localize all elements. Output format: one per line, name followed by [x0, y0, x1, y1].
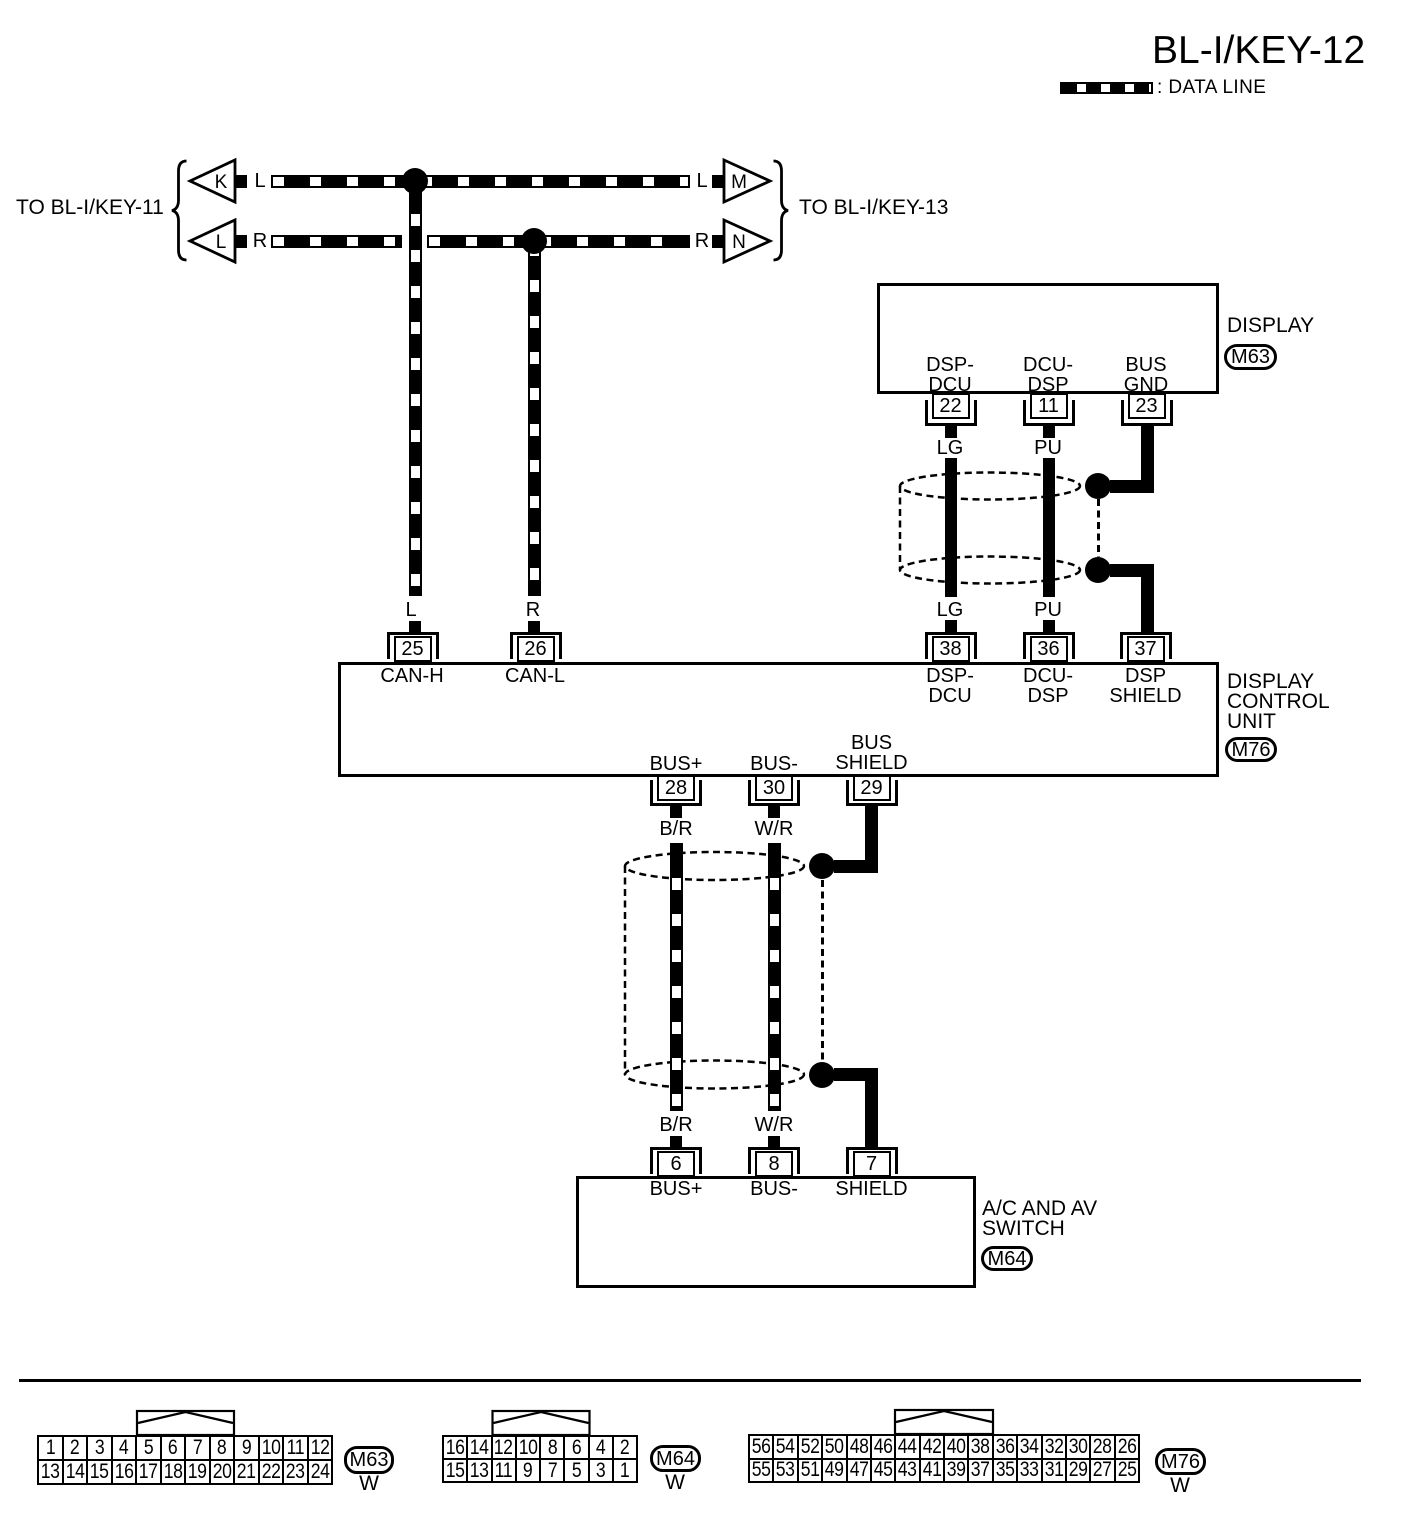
connector id M63 oval: [1224, 344, 1277, 370]
connector color W (M76): [1170, 1476, 1190, 1496]
wire stub above pin 6: [670, 1136, 682, 1149]
pin 26 (DCU CAN-L): [510, 632, 562, 659]
vertical data line CAN-H (junction to pin 25): [409, 181, 422, 596]
pin name CAN-H: [380, 666, 443, 686]
wire stub after arrow K: [235, 175, 247, 188]
connector color W (M63): [359, 1474, 379, 1494]
connector face M76 pin grid: [748, 1434, 1140, 1483]
pin name DSP-DCU (DCU): [926, 666, 974, 706]
title BL-I/KEY-12: [1152, 31, 1365, 70]
pin name DCU-DSP (DCU): [1023, 666, 1073, 706]
connector face M64 pin grid: [442, 1435, 638, 1483]
wire stub after arrow L: [235, 235, 247, 248]
connector id M64 oval: [981, 1246, 1033, 1271]
pin name BUS SHIELD (DCU): [835, 733, 907, 773]
connector id M64 oval (bottom): [650, 1445, 701, 1472]
wire color label R (above pin 26): [526, 600, 540, 620]
pin name BUS+ (switch): [650, 1179, 703, 1199]
pin 22 (display DSP-DCU): [925, 400, 977, 426]
unit box DISPLAY CONTROL UNIT: [338, 662, 1219, 777]
connector id M63 oval (bottom): [344, 1446, 394, 1474]
pin name BUS- (switch): [750, 1179, 798, 1199]
wire color label R (row 2 right): [695, 231, 709, 251]
wire color label LG (lower): [935, 600, 966, 620]
wire stub above pin 25: [409, 621, 421, 633]
shield node upper (switch wires): [809, 853, 835, 879]
vertical data line CAN-L (junction to pin 26): [528, 241, 541, 596]
data line CAN-L horizontal (right of crossing): [427, 235, 690, 248]
pin 29 (DCU BUS SHIELD): [846, 780, 898, 806]
pin name DSP SHIELD (DCU): [1109, 666, 1181, 706]
wire color label B/R (upper): [659, 819, 692, 839]
wire PU (pin 11 to pin 36): [1043, 438, 1055, 597]
pin 25 (DCU CAN-H): [387, 632, 439, 659]
wire color label PU (upper): [1032, 438, 1064, 458]
shield node lower (display): [1085, 557, 1111, 583]
wire color label LG (upper): [935, 438, 966, 458]
unit box DISPLAY: [877, 283, 1219, 394]
pin name BUS- (DCU): [750, 754, 798, 774]
unit name A/C AND AV SWITCH: [982, 1199, 1097, 1239]
wire stub above pin 8: [768, 1136, 780, 1149]
legend data-line sample: [1060, 82, 1153, 94]
pin 36 (DCU DCU-DSP): [1023, 632, 1075, 659]
pin 30 (DCU BUS-): [748, 780, 800, 806]
pin name BUS+ (DCU): [650, 754, 703, 774]
pin 7 (switch SHIELD): [846, 1147, 898, 1174]
unit box A/C AND AV SWITCH: [576, 1176, 976, 1288]
wire LG (pin 22 to pin 38): [945, 438, 957, 597]
wire color label W/R (lower): [755, 1115, 794, 1135]
pin 6 (switch BUS+): [650, 1147, 702, 1174]
pin name BUS GND (display): [1124, 355, 1168, 395]
wire stub above pin 38: [945, 620, 957, 633]
wire color label PU (lower): [1032, 600, 1064, 620]
wire color label L (above pin 25): [405, 600, 416, 620]
data line CAN-H horizontal: [271, 175, 690, 188]
shield node upper (display): [1085, 473, 1111, 499]
data line BUS- vertical (pin 30 to pin 8): [768, 843, 781, 1111]
pin name SHIELD (switch): [835, 1179, 907, 1199]
label TO BL-I/KEY-11: [16, 198, 164, 218]
wire color label B/R (lower): [659, 1115, 692, 1135]
connector color W (M64): [665, 1473, 685, 1493]
pin name DCU-DSP (display): [1023, 355, 1073, 395]
wire BUS SHIELD (pin 29 down to shield node): [865, 803, 878, 873]
wire shield to pin 7: [834, 1068, 878, 1081]
shield drain dashed link (switch): [821, 880, 824, 1060]
shield node lower (switch): [809, 1062, 835, 1088]
pin name DSP-DCU (display): [926, 355, 974, 395]
wire stub above pin 26: [528, 621, 540, 633]
connector id M76 oval: [1225, 737, 1277, 762]
junction node CAN-H: [402, 168, 428, 194]
pin 23 (display BUS GND): [1121, 400, 1173, 426]
connector id M76 oval (bottom): [1155, 1448, 1206, 1475]
wire stub before arrow N: [712, 235, 724, 248]
separator line: [19, 1379, 1361, 1382]
connector face M63 pin grid: [37, 1435, 333, 1485]
wire BUS GND (pin 23 down to shield node): [1141, 426, 1154, 492]
shield drain dashed link (display): [1097, 499, 1100, 557]
wire shield to pin 37: [1110, 564, 1154, 577]
junction node CAN-L: [521, 228, 547, 254]
wire color label R (row 2 left): [253, 231, 267, 251]
pin 38 (DCU DSP-DCU): [925, 632, 977, 659]
wire color label W/R (upper): [755, 819, 794, 839]
pin 28 (DCU BUS+): [650, 780, 702, 806]
pin 11 (display DCU-DSP): [1023, 400, 1075, 426]
wire color label L (row 1 left): [254, 171, 265, 191]
wire stub above pin 36: [1043, 620, 1055, 633]
pin 8 (switch BUS-): [748, 1147, 800, 1174]
unit name DISPLAY CONTROL UNIT: [1227, 672, 1330, 732]
wire color label L (row 1 right): [696, 171, 707, 191]
unit name DISPLAY: [1227, 316, 1314, 336]
label TO BL-I/KEY-13: [799, 198, 948, 218]
data line CAN-L horizontal (left of crossing): [271, 235, 402, 248]
pin name CAN-L: [505, 666, 565, 686]
legend text DATA LINE: [1157, 78, 1266, 98]
wire stub before arrow M: [712, 175, 724, 188]
pin 37 (DCU DSP SHIELD): [1120, 632, 1172, 659]
data line BUS+ vertical (pin 28 to pin 6): [670, 843, 683, 1111]
